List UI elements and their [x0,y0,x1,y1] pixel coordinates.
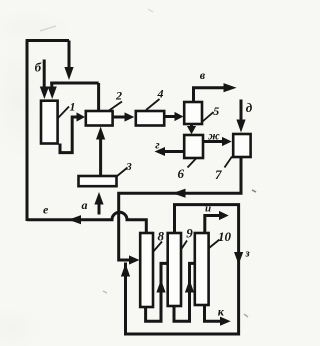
svg-text:1: 1 [70,100,76,114]
wire column 9 top over right side bottom loop [126,205,239,334]
pointer to label 10 [209,240,220,249]
wire apparatus 3 up into apparatus 2 [99,137,102,176]
wire zh apparatus 6 to apparatus 7 [203,140,223,143]
wire apparatus 1 bottom to apparatus 2 [60,117,78,153]
svg-text:2: 2 [115,89,122,103]
apparatus 4 [136,111,164,126]
pointer to label 3 [117,168,128,177]
arrow output k [220,317,231,326]
wire output i from column 10 top [205,216,220,234]
wire output v from apparatus 5 top [194,88,225,102]
apparatus 6 [184,135,203,158]
wire feed d [240,100,243,122]
wire header left drop [50,83,53,87]
arrow left on recycle e line [69,215,82,224]
pointer to label 9 [181,241,187,250]
arrow into apparatus 6 top [187,126,196,134]
svg-text:8: 8 [158,229,165,244]
svg-text:6: 6 [178,166,185,181]
svg-text:к: к [218,305,225,319]
pointer to label 7 [225,157,233,168]
svg-text:б: б [35,60,42,75]
arrow feed d into apparatus 7 [236,120,245,133]
wire apparatus 2 to apparatus 4 [113,116,126,119]
column 10 [195,233,209,305]
wire recycle loop top horizontal [26,39,69,42]
arrow into apparatus 5 [175,112,184,121]
wire apparatus 5 to apparatus 6 [190,124,193,127]
wire distribution header [50,82,98,85]
wire feed a [98,203,101,215]
pointer to label 2 [109,102,122,111]
column 8 [140,233,153,307]
scan noise marks (decorative) [40,9,256,317]
pointer to label 8 [153,242,163,253]
apparatus 7 [233,134,250,157]
svg-text:10: 10 [218,229,232,244]
svg-text:4: 4 [157,87,164,101]
arrow down onto header [64,67,73,80]
arrow into column 8 left [129,255,139,264]
svg-text:г: г [155,138,160,152]
svg-text:9: 9 [186,226,193,241]
wire apparatus 7 drain to column 8 [119,157,241,260]
apparatus 3 [79,176,117,186]
apparatus 2 [86,111,113,126]
wire recycle e from column 8 top with hop [27,212,146,233]
svg-text:а: а [82,198,88,212]
wire feed b vertical [43,60,46,88]
wire column 8 bottom to column 9 [146,263,168,321]
svg-text:д: д [246,100,253,115]
arrow output v [224,83,237,92]
arrow left on drain line [173,189,186,198]
wire header right drop into apparatus 2 [97,83,100,111]
pointer to label 1 [58,107,69,119]
apparatus 5 [184,102,202,124]
svg-text:7: 7 [215,167,222,182]
arrow into apparatus 4 [125,112,135,121]
arrow feed b into apparatus 1 [40,87,49,100]
wire apparatus 4 to apparatus 5 [164,115,175,118]
arrow zh into apparatus 7 [222,137,232,146]
pointer to label 5 [203,112,214,122]
wire output k from column 10 bottom [205,305,221,321]
arrow z down on right side [234,252,243,265]
arrow header into apparatus 1 [48,87,57,100]
wire column 9 bottom to column 10 [174,263,195,321]
svg-text:5: 5 [213,104,219,118]
arrow up joining column 8 feed [121,264,130,277]
wire recycle loop drop into header [68,41,71,70]
arrow up into apparatus 2 bottom [96,127,105,140]
svg-text:з: з [244,248,250,260]
svg-text:ж: ж [208,129,220,143]
svg-text:в: в [200,68,206,82]
arrow up between columns 8 and 9 [156,280,165,293]
svg-text:и: и [205,203,211,215]
svg-text:е: е [43,203,49,217]
arrow up between columns 9 and 10 [185,280,194,293]
arrow output g [155,147,166,156]
svg-text:3: 3 [125,161,132,173]
arrow into apparatus 2 left [77,112,86,121]
pointer to label 6 [188,159,197,168]
pointer to label 4 [146,99,160,110]
arrow output i [219,211,229,220]
apparatus 1 [41,101,58,144]
wire recycle loop left vertical [26,41,29,222]
wire output g from apparatus 6 [165,150,185,153]
column 9 [168,233,181,306]
arrow feed a into apparatus 3 [94,192,103,205]
